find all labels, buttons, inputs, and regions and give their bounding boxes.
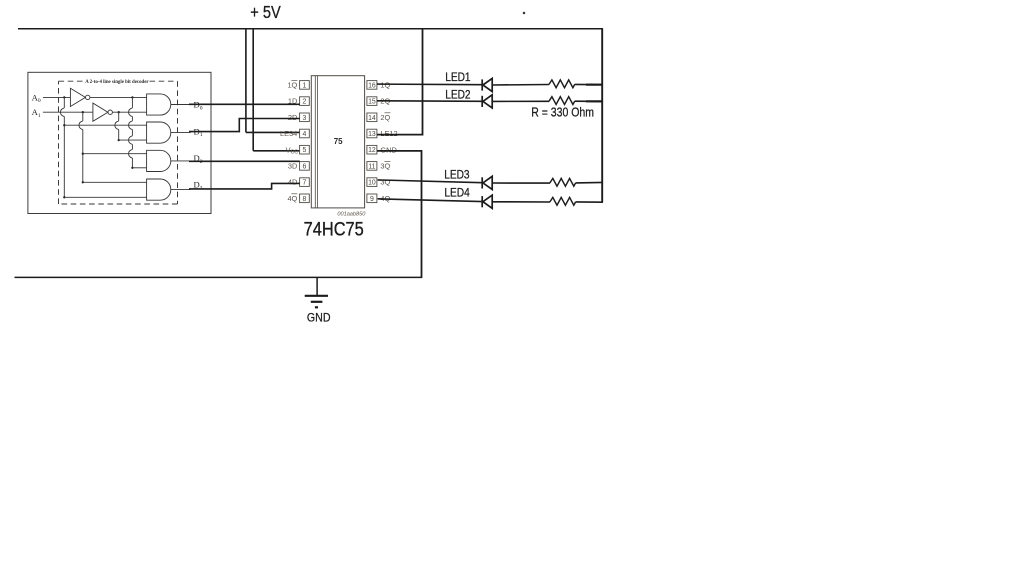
resistor R4: [550, 197, 576, 205]
node A1-AND3 junction: [82, 153, 84, 155]
wire pin 16 to LED1: [377, 83, 482, 86]
wire LED4 to R4: [492, 201, 550, 203]
wire nA1 vertical: [118, 112, 120, 121]
wire LED3 to R3: [492, 182, 550, 184]
svg-text:16: 16: [368, 82, 376, 89]
svg-text:1Q: 1Q: [287, 81, 297, 90]
svg-text:75: 75: [334, 137, 343, 146]
wire A0 input: [43, 96, 71, 98]
wire R4 to +5V rail: [576, 201, 603, 203]
wire D1 to pin 3: [189, 119, 300, 132]
+5V drop wire to VCC pin 5: [252, 29, 254, 151]
wire R2 to +5V rail: [575, 100, 603, 102]
pin 9 box: [367, 194, 377, 203]
svg-text:2D: 2D: [288, 113, 297, 122]
LED LED4: [481, 196, 483, 207]
node A0-AND4 junction: [63, 196, 65, 198]
inverter U2 (A1): [93, 103, 108, 121]
svg-text:6: 6: [302, 163, 306, 170]
wire pin 10 to LED3: [378, 180, 483, 183]
wire D3 to pin 7: [189, 183, 300, 189]
svg-text:3Q: 3Q: [380, 162, 390, 171]
+5V top rail wire: [18, 28, 603, 30]
pin 12 box: [367, 145, 377, 154]
svg-text:1: 1: [302, 82, 306, 89]
wire nA0 to AND3 bottom: [132, 167, 146, 169]
pin 11 box: [367, 162, 377, 171]
AND gate G4 (D3): [147, 179, 171, 200]
wire LED2 to R2: [492, 100, 549, 102]
svg-text:14: 14: [368, 115, 376, 122]
svg-text:3: 3: [302, 115, 306, 122]
wire A1 vertical: [82, 112, 84, 121]
wire A1 input: [43, 111, 93, 113]
wire A1 to AND3 top: [83, 153, 147, 155]
node nA1 junction: [118, 111, 120, 113]
decoder outer box: [28, 72, 211, 213]
svg-text:4D: 4D: [288, 178, 297, 187]
resistor R3: [550, 178, 576, 186]
node nA0-AND3 junction: [131, 167, 133, 169]
pin 6 box: [300, 162, 310, 171]
svg-text:LE12: LE12: [380, 129, 397, 138]
node nA1-AND2 junction: [118, 139, 120, 141]
svg-text:7: 7: [302, 180, 306, 187]
svg-text:A 2-to-4 line single bit decod: A 2-to-4 line single bit decoder: [85, 80, 149, 85]
svg-text:LE34: LE34: [280, 129, 297, 138]
svg-text:R = 330 Ohm: R = 330 Ohm: [531, 106, 594, 120]
wire pin 9 to LED4: [378, 199, 483, 202]
node A1 junction: [82, 111, 84, 113]
wire D1 stub: [171, 132, 191, 134]
wire LED1 to R1: [492, 84, 549, 87]
svg-text:1Q: 1Q: [380, 81, 390, 90]
AND gate G1 (D0): [147, 94, 171, 115]
wire pin 13 LE12 to +5V: [377, 29, 423, 135]
svg-text:GND: GND: [380, 145, 396, 154]
AND gate G3 (D2): [147, 150, 171, 171]
svg-text:4: 4: [302, 131, 306, 138]
ground rail wire: [15, 276, 423, 278]
pin 4 box: [300, 129, 310, 138]
pin 5 box: [300, 145, 310, 154]
svg-text:5: 5: [302, 147, 306, 154]
svg-text:8: 8: [302, 196, 306, 203]
resistor R2: [549, 97, 575, 105]
wire R1 to +5V rail: [575, 83, 603, 85]
pin 14 box: [367, 113, 377, 122]
pin 16 box: [367, 81, 377, 90]
pin 10 box: [367, 178, 377, 187]
wire R3 to +5V rail: [576, 181, 603, 184]
wire D2 stub: [171, 160, 191, 162]
node nA0 junction: [131, 96, 133, 98]
stray dot: [523, 12, 526, 15]
right vertical +5V rail wire: [601, 28, 603, 202]
pin 15 box: [367, 97, 377, 106]
wire A0 vertical: [63, 97, 65, 108]
wire D0 to pin 2: [189, 103, 300, 105]
pin 3 box: [300, 113, 310, 122]
wire D0 stub: [171, 104, 191, 106]
wire A0 to AND4 bottom: [64, 196, 146, 198]
wire pin 15 to LED2: [377, 100, 482, 103]
decoder dashed box: [59, 80, 85, 82]
pin 8 box: [300, 194, 310, 203]
wire pin 12 GND down: [377, 151, 422, 278]
svg-text:11: 11: [368, 163, 375, 170]
svg-text:LED2: LED2: [445, 88, 470, 101]
wire nA1 (inverter U2 output): [112, 111, 146, 113]
pin 2 box: [300, 97, 310, 106]
pin 1 box: [300, 81, 310, 90]
svg-text:+ 5V: + 5V: [250, 2, 281, 22]
pin 13 box: [367, 129, 377, 138]
node A0 junction: [63, 96, 65, 98]
resistor R1: [549, 80, 575, 88]
wire D2 to pin 6: [189, 160, 300, 162]
svg-text:4Q: 4Q: [287, 194, 297, 203]
inverter U1 (A0): [70, 88, 85, 106]
svg-text:74HC75: 74HC75: [304, 219, 364, 240]
ground: [316, 277, 318, 295]
wire D3 stub: [171, 189, 191, 191]
wire A0 rail to AND2: [64, 124, 146, 126]
svg-text:LED1: LED1: [445, 71, 470, 84]
pin 7 box: [300, 178, 310, 187]
svg-text:001aab850: 001aab850: [337, 212, 365, 218]
node A0-rail junction: [63, 124, 65, 126]
svg-text:LED3: LED3: [444, 169, 469, 182]
svg-text:15: 15: [368, 99, 376, 106]
svg-text:3D: 3D: [288, 162, 297, 171]
svg-text:GND: GND: [307, 312, 331, 325]
wire nA0 vertical: [131, 97, 133, 108]
svg-text:3Q: 3Q: [380, 178, 390, 187]
node A1-AND4 junction: [82, 181, 84, 183]
wire nA0 (inverter U1 output): [90, 96, 147, 98]
svg-text:10: 10: [368, 180, 376, 187]
LED LED2: [481, 96, 483, 107]
svg-text:9: 9: [370, 196, 374, 203]
LED LED3: [481, 177, 483, 188]
svg-text:2: 2: [302, 99, 306, 106]
svg-text:2Q: 2Q: [380, 113, 390, 122]
svg-text:13: 13: [368, 131, 376, 138]
LED LED1: [481, 79, 483, 90]
wire nA1 to AND2 bottom: [119, 139, 147, 141]
svg-text:LED4: LED4: [444, 187, 470, 200]
AND gate G2 (D1): [147, 122, 171, 143]
svg-text:12: 12: [368, 147, 376, 154]
wire A1 to AND4 top: [83, 181, 147, 183]
op IC U3 74HC75 body: [311, 76, 364, 208]
+5V drop wire to LE34 pin 4: [245, 29, 247, 133]
